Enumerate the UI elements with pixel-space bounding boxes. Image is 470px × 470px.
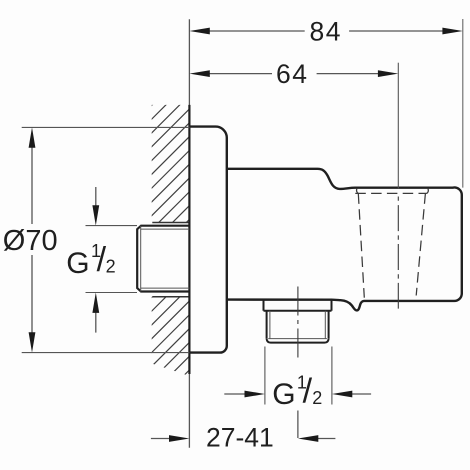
- dim 84 arrowheads: [189, 28, 209, 35]
- holder socket hidden left edge: [358, 193, 364, 297]
- outlet centerline: [297, 287, 299, 360]
- dim G12 bottom label: [272, 372, 322, 411]
- outlet nipple thread root lines: [268, 311, 327, 339]
- dim diameter70 top extension: [22, 126, 190, 128]
- dim 64 extension line: [397, 63, 399, 189]
- inlet nipple chamfer line: [140, 226, 142, 292]
- svg-text:/: /: [303, 372, 313, 410]
- dim diameter70 line: [31, 147, 33, 333]
- svg-text:Ø70: Ø70: [3, 225, 58, 257]
- wall hatch lower: [71, 292, 267, 378]
- svg-text:64: 64: [276, 59, 308, 89]
- wall face line: [188, 19, 190, 447]
- dim G12 left label: [66, 241, 115, 280]
- svg-text:G: G: [66, 247, 89, 280]
- holder centerline: [397, 197, 399, 309]
- dim G12 bottom left extension: [264, 347, 266, 405]
- dim 27-41 arrowheads: [169, 435, 189, 442]
- dim G12 left top extension: [86, 225, 138, 227]
- dim diameter70 arrowheads: [29, 127, 36, 147]
- holder socket hidden right edge: [416, 193, 425, 295]
- dim 64 arrowheads: [189, 70, 209, 77]
- wall cut edge above inlet: [152, 222, 189, 224]
- outlet nipple collar: [264, 300, 332, 311]
- flange (escutcheon) outline: [189, 127, 226, 353]
- dim 84 line: [209, 30, 442, 32]
- dim G12 bottom right extension: [331, 347, 333, 405]
- holder socket hidden top edge: [355, 192, 427, 194]
- body and holder outline: [227, 169, 462, 311]
- outlet nipple chamfered end: [267, 339, 329, 343]
- dim G12 left bottom extension: [86, 292, 138, 294]
- svg-text:2: 2: [312, 388, 322, 408]
- svg-text:27-41: 27-41: [206, 422, 274, 452]
- dim G12 bottom arrows: [224, 393, 245, 395]
- dim 84 right extension line: [462, 19, 464, 188]
- holder socket rim hooks: [357, 189, 429, 194]
- wall hatch upper: [29, 100, 309, 228]
- dim G12 left arrows: [95, 187, 97, 207]
- svg-text:G: G: [272, 378, 295, 411]
- dim diameter70 bottom extension: [22, 352, 190, 354]
- svg-text:84: 84: [310, 17, 342, 47]
- inlet nipple thread root lines: [141, 229, 190, 288]
- dim 64 line: [209, 73, 378, 75]
- svg-text:2: 2: [106, 257, 116, 277]
- dim 27-41 line: [151, 438, 336, 440]
- outlet nipple thread body: [267, 311, 329, 339]
- wall cut edge below inlet: [152, 296, 189, 298]
- inlet nipple outer contour: [137, 226, 189, 292]
